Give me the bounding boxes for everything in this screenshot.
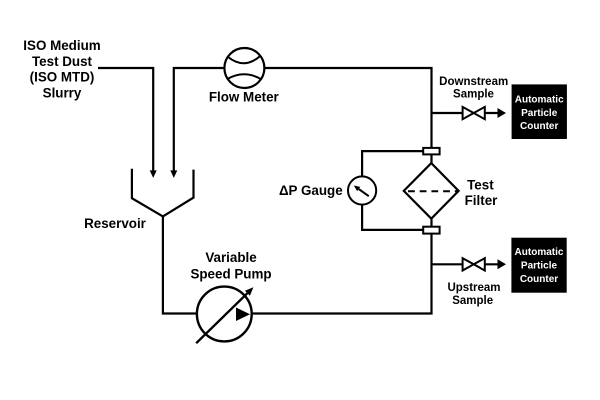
svg-text:Automatic: Automatic — [515, 247, 564, 258]
svg-text:(ISO MTD): (ISO MTD) — [30, 70, 95, 85]
svg-text:Counter: Counter — [520, 274, 558, 285]
svg-text:Flow Meter: Flow Meter — [209, 89, 280, 104]
svg-text:ISO Medium: ISO Medium — [23, 38, 100, 53]
svg-text:ΔP Gauge: ΔP Gauge — [279, 183, 343, 198]
svg-text:Sample: Sample — [453, 88, 494, 100]
svg-text:Speed Pump: Speed Pump — [190, 267, 271, 282]
svg-text:Counter: Counter — [520, 121, 558, 132]
svg-text:Upstream: Upstream — [447, 282, 500, 294]
svg-text:Test Dust: Test Dust — [32, 54, 93, 69]
svg-text:Automatic: Automatic — [515, 95, 564, 106]
svg-text:Filter: Filter — [465, 193, 499, 208]
svg-text:Particle: Particle — [521, 108, 558, 119]
svg-text:Sample: Sample — [452, 295, 493, 307]
svg-text:Slurry: Slurry — [43, 85, 82, 100]
svg-text:Downstream: Downstream — [439, 76, 508, 88]
svg-text:Particle: Particle — [521, 261, 558, 272]
svg-text:Test: Test — [467, 177, 494, 192]
svg-text:Reservoir: Reservoir — [84, 216, 147, 231]
svg-text:Variable: Variable — [205, 250, 256, 265]
